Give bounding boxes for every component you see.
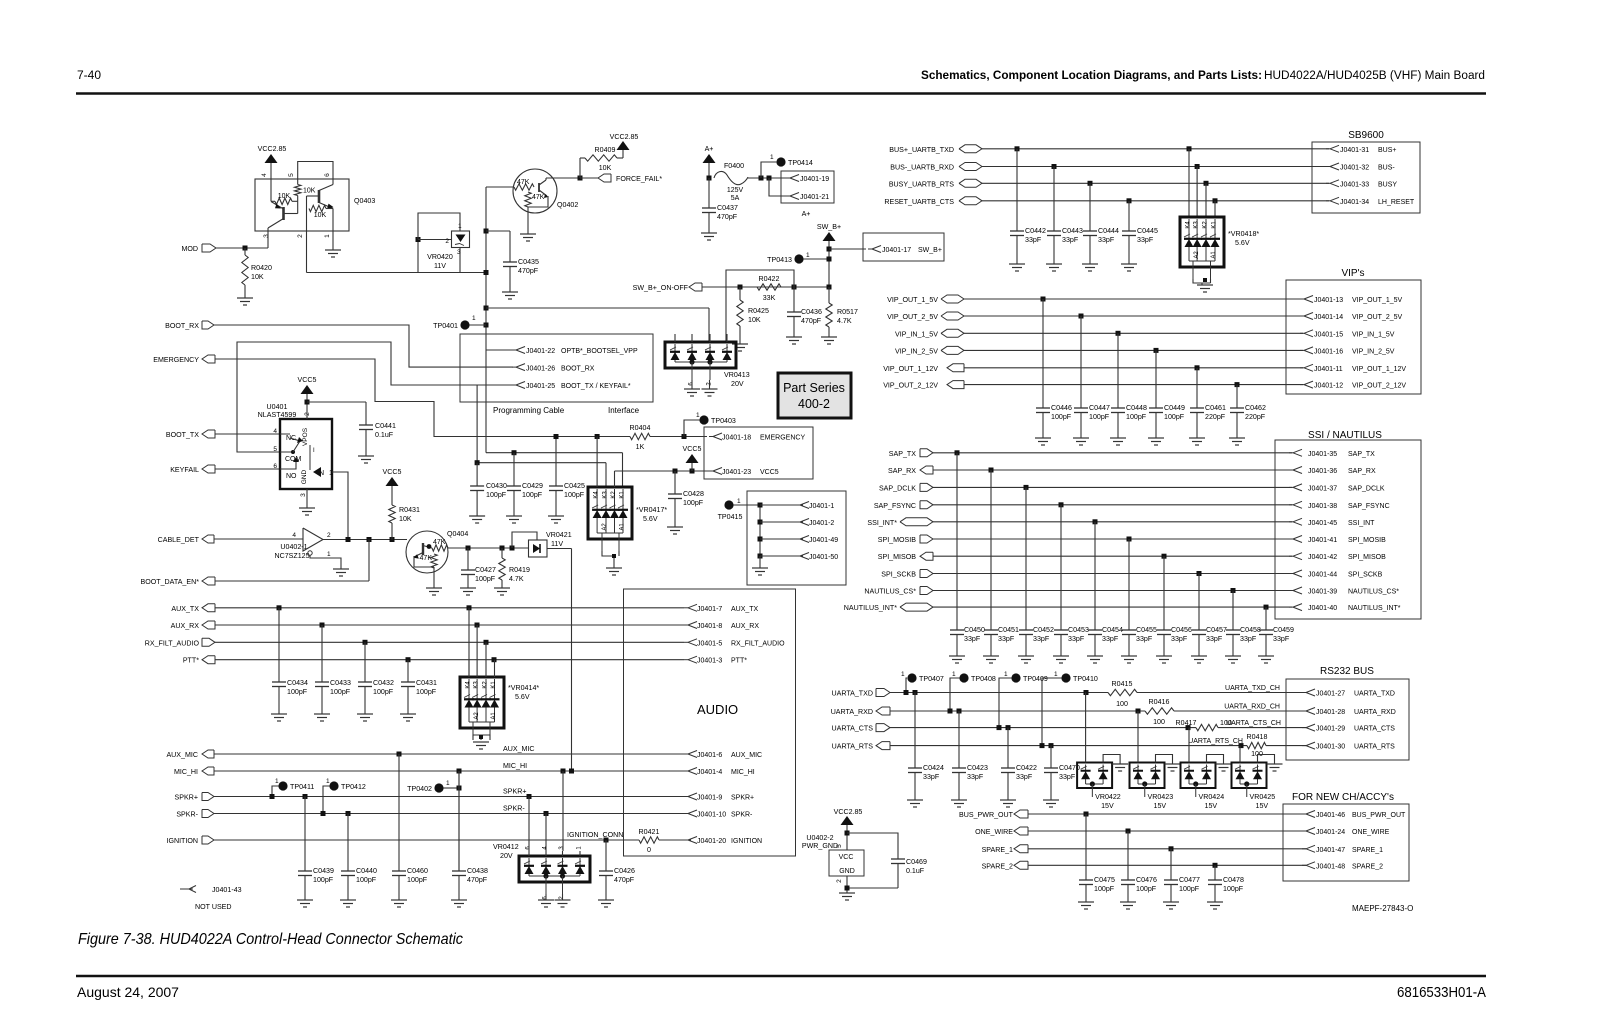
connector box J0401-17 [863,233,944,261]
svg-text:K4: K4 [594,491,600,499]
capacitor C0462 [1230,385,1266,438]
junction R0419 [500,546,505,551]
svg-text:10K: 10K [251,273,264,281]
svg-text:*VR0418*: *VR0418* [1228,230,1259,238]
svg-text:SPKR-: SPKR- [503,805,525,813]
svg-text:UARTA_RXD: UARTA_RXD [831,708,873,716]
svg-text:C0477: C0477 [1179,876,1200,884]
test point TP0403 [699,415,708,424]
svg-text:SAP_FSYNC: SAP_FSYNC [1348,503,1390,510]
test point TP0412 [329,781,338,790]
svg-text:33pF: 33pF [1240,635,1257,643]
capacitor C0436 [787,287,822,337]
ground (C0445) [1121,263,1137,265]
svg-text:47K: 47K [532,194,545,201]
svg-text:FORCE_FAIL*: FORCE_FAIL* [616,175,662,183]
svg-text:VIP's: VIP's [1341,268,1364,279]
ground (C0451) [983,655,999,657]
svg-text:FOR NEW CH/ACCY's: FOR NEW CH/ACCY's [1292,792,1394,803]
ground (VR0413 b) [702,388,718,390]
svg-text:C0450: C0450 [964,626,985,634]
svg-text:R0416: R0416 [1149,698,1170,706]
transistor Q0404 outline [406,531,448,573]
svg-text:BOOT_TX: BOOT_TX [166,431,199,439]
svg-text:47K: 47K [420,555,433,562]
svg-text:AUX_MIC: AUX_MIC [503,745,535,753]
svg-text:HUD4022A/HUD4025B (VHF) Main B: HUD4022A/HUD4025B (VHF) Main Board [1264,70,1485,82]
zener array VR0418 [1180,217,1224,267]
svg-text:UARTA_RXD: UARTA_RXD [1354,709,1396,716]
svg-text:VR0413: VR0413 [724,371,750,379]
AUX_TX input tag [171,604,215,613]
ground (C0437) [701,232,717,234]
wire SAP_RX row [933,469,1292,471]
svg-text:J0401-26: J0401-26 [526,366,555,373]
svg-text:VR0421: VR0421 [546,531,572,539]
svg-text:SPARE_1: SPARE_1 [1352,847,1383,854]
capacitor C0425 [549,437,585,517]
svg-text:VIP_IN_1_5V: VIP_IN_1_5V [1352,331,1395,338]
svg-text:C0460: C0460 [407,867,428,875]
svg-text:33pF: 33pF [1016,773,1033,781]
ground (C0478) [1207,901,1223,903]
svg-text:C0423: C0423 [967,764,988,772]
RESET_UARTB_CTS tag [884,197,982,206]
ground (C0462) [1229,437,1245,439]
test point TP0414 [776,157,785,166]
junction SPARE_2 [1213,863,1218,868]
svg-text:J0401-35: J0401-35 [1308,451,1337,458]
capacitor C0424 [908,693,944,801]
capacitor C0435 [503,258,539,292]
pin J0401-6 AUX_MIC [684,751,762,760]
ground (C0433) [314,713,330,715]
ground (R0425) [732,343,748,345]
svg-text:UARTA_CTS: UARTA_CTS [1354,726,1395,733]
wire buffer enable [310,555,341,569]
svg-text:SW_B+: SW_B+ [817,223,841,231]
svg-text:A1: A1 [1211,251,1217,259]
connector box J0401-1/2/49/50 [747,491,846,585]
pin J0401-9 SPKR+ [684,793,754,802]
pin J0401-42 SPI_MISOB [1289,553,1386,562]
wire MIC_HI row [214,770,684,772]
svg-text:C0429: C0429 [522,482,543,490]
wire SAP_FSYNC row [933,504,1292,506]
UARTA_RTS tag [832,742,890,751]
pin J0401-35 SAP_TX [1289,449,1375,458]
svg-text:NAUTILUS_CS*: NAUTILUS_CS* [864,588,916,596]
wire VIP_OUT_1_12V row [964,367,1303,369]
svg-text:33K: 33K [763,294,776,302]
wire SPKR+ row [214,796,684,798]
wire VCC5 to C0441 [307,401,366,403]
wire J0401-2 [760,521,803,523]
SAP_DCLK tag [879,483,933,492]
ground (C0453) [1053,655,1069,657]
svg-text:33pF: 33pF [1025,236,1042,244]
ground (C0431) [400,713,416,715]
pin J0401-4 MIC_HI [684,768,755,777]
connector box AUDIO [624,589,796,856]
resistor R0415 [1108,680,1137,708]
SPI_SCKB tag [881,570,933,579]
svg-text:C0443: C0443 [1062,227,1083,235]
svg-text:OPTB*_BOOTSEL_VPP: OPTB*_BOOTSEL_VPP [561,348,638,355]
svg-text:SPI_MISOB: SPI_MISOB [1348,554,1386,561]
svg-text:AUX_RX: AUX_RX [171,622,200,630]
svg-text:*VR0414*: *VR0414* [508,684,539,692]
wire VIP_IN_2_5V row [964,349,1303,351]
pin J0401-21 [786,193,829,202]
wire U0401 GND pin [306,489,308,508]
svg-text:6816533H01-A: 6816533H01-A [1397,985,1486,1001]
connector box programming cable [460,334,653,402]
svg-text:UARTA_RXD_CH: UARTA_RXD_CH [1224,704,1280,711]
wire to J0401-17 [829,248,866,250]
svg-text:GND: GND [301,469,308,484]
svg-text:VIP_OUT_2_12V: VIP_OUT_2_12V [883,382,938,390]
junction MOD/R0420 [243,246,248,251]
junction VIP_OUT_1_12V/C0461 [1195,365,1200,370]
resistor R0425 [737,287,769,344]
junction TP0413 [827,257,832,262]
wire VIP_IN_1_5V row [964,332,1303,334]
VIP_OUT_1_5V tag [887,295,964,304]
svg-text:5: 5 [836,844,843,848]
svg-text:BOOT_DATA_EN*: BOOT_DATA_EN* [141,578,200,586]
ground (VR0417) [606,567,622,569]
power VCC5 (J0401-23) [686,454,699,463]
capacitor C0423 [952,711,988,800]
pin J0401-32 BUS- [1326,163,1395,172]
svg-text:J0401-20: J0401-20 [697,838,726,845]
svg-text:100pF: 100pF [1094,885,1115,893]
ground (TP0415 box) [752,567,768,569]
svg-text:100pF: 100pF [1051,413,1072,421]
svg-text:SAP_RX: SAP_RX [1348,468,1376,475]
svg-text:R0404: R0404 [630,424,651,432]
pin J0401-18 EMERGENCY [709,433,805,442]
svg-text:10K: 10K [399,515,412,523]
IC U0402-2 PWR_GND [802,834,864,883]
svg-text:BUS+: BUS+ [1378,147,1396,154]
svg-text:EMERGENCY: EMERGENCY [760,435,805,442]
svg-text:C0428: C0428 [683,490,704,498]
junction VIP_OUT_2_5V/C0447 [1079,314,1084,319]
ground (C0458) [1225,655,1241,657]
buffer U0402-1 NC7SZ125 [303,528,323,551]
junction SPI_SCKB [1197,571,1202,576]
svg-text:VIP_IN_2_5V: VIP_IN_2_5V [895,347,938,355]
wire BUSY_UARTB_RTS row [982,182,1329,184]
svg-text:UARTA_TXD_CH: UARTA_TXD_CH [1225,685,1280,692]
ground (C0446) [1035,437,1051,439]
wire VR0420 pin2 [418,239,452,241]
svg-text:1: 1 [275,778,279,785]
svg-text:1: 1 [952,671,956,678]
wire Q0404 collector out [448,547,529,549]
svg-text:VPOS: VPOS [302,427,309,446]
resistor R0418 [1247,733,1268,758]
svg-text:100pF: 100pF [416,688,437,696]
zener array VR0414 [460,677,504,728]
wire J0401-49 [760,538,803,540]
U0401 labels [258,403,297,419]
wire UARTA_RXD row [890,710,1145,712]
pin J0401-30 UARTA_RTS [1302,742,1395,751]
wire VR0420 pin1 loop [418,213,460,240]
svg-text:15V: 15V [1205,802,1218,810]
svg-text:C0427: C0427 [475,566,496,574]
svg-text:100pF: 100pF [1089,413,1110,421]
svg-text:BUSY_UARTB_RTS: BUSY_UARTB_RTS [889,180,954,188]
svg-text:*VR0417*: *VR0417* [636,506,667,514]
wire Q0403 pin2 down [306,209,308,273]
svg-text:TP0403: TP0403 [711,417,736,425]
connector box SB9600 [1312,142,1420,213]
svg-text:0.1uF: 0.1uF [375,431,394,439]
svg-text:100pF: 100pF [373,688,394,696]
svg-text:AUX_MIC: AUX_MIC [731,752,762,759]
wire SSI_INT* row [933,521,1292,523]
power VCC5 (U0401) [301,385,314,394]
svg-text:SAP_DCLK: SAP_DCLK [1348,485,1385,492]
svg-text:BOOT_TX / KEYFAIL*: BOOT_TX / KEYFAIL* [561,383,631,390]
pin J0401-3 PTT* [684,656,747,665]
resistor R0404 [630,424,651,451]
svg-text:VCC5: VCC5 [383,468,402,476]
svg-text:SB9600: SB9600 [1348,130,1384,141]
wire VPP into box [485,334,487,350]
svg-text:UARTA_CTS_CH: UARTA_CTS_CH [1226,720,1281,727]
svg-text:BUS_PWR_OUT: BUS_PWR_OUT [959,811,1014,819]
svg-text:A2: A2 [474,712,480,720]
ground (R0420) [237,297,253,299]
wire BOOT_RX [214,325,513,367]
capacitor C0434 [272,608,308,714]
svg-text:J0401-49: J0401-49 [809,537,838,544]
svg-text:K2: K2 [1203,221,1209,229]
junction VIP_OUT_2_12V/C0462 [1235,382,1240,387]
svg-text:J0401-17: J0401-17 [882,247,911,254]
capacitor C0478 [1208,865,1244,902]
capacitor C0451 [984,470,1019,656]
svg-text:33pF: 33pF [1068,635,1085,643]
svg-text:BOOT_RX: BOOT_RX [165,322,199,330]
pin J0401-8 AUX_RX [684,622,759,631]
svg-text:100: 100 [1116,700,1128,708]
svg-text:J0401-36: J0401-36 [1308,468,1337,475]
wire VPP vertical [485,187,487,334]
pin J0401-23 VCC5 [709,468,779,477]
svg-text:SPI_MISOB: SPI_MISOB [878,553,917,561]
junction VCC5 arrow [690,469,695,474]
svg-text:J0401-7: J0401-7 [697,606,722,613]
capacitor C0454 [1088,522,1123,656]
junction RESET_UARTB_CTS/C0445 [1127,198,1132,203]
test point TP0407 [907,673,916,682]
junction NAUTILUS_INT* [1264,605,1269,610]
test point TP0402 [434,783,443,792]
capacitor C0438 [452,771,488,900]
svg-text:IGNITION: IGNITION [166,837,198,845]
svg-text:J0401-25: J0401-25 [526,383,555,390]
junction SPI_MISOB [1162,554,1167,559]
svg-text:C0431: C0431 [416,679,437,687]
Q0403 internal resistor 10K (vertical) [295,179,316,201]
junction VR0417 K4 [595,434,600,439]
Q0404 internal transistor [414,543,433,559]
wire VR0413 pin4 loop [726,270,794,342]
ground (C0452) [1018,655,1034,657]
svg-text:6: 6 [324,173,331,177]
svg-text:1: 1 [696,412,700,419]
pin J0401-11 VIP_OUT_1_12V [1300,364,1406,373]
junction FORCE_FAIL/R0409 [578,176,583,181]
ground (C0422) [1000,799,1016,801]
svg-text:33pF: 33pF [1206,635,1223,643]
svg-text:U0402-2: U0402-2 [806,834,833,842]
svg-text:470pF: 470pF [801,317,822,325]
capacitor C0433 [315,625,351,714]
wire SPI_SCKB row [933,573,1292,575]
junction PTT*/494 [492,657,497,662]
wire AUX_TX row [215,607,684,609]
ground (C0459) [1258,655,1274,657]
fuse F0400 [714,162,748,202]
wire U0401 IN pin [332,472,348,539]
capacitor C0455 [1122,539,1157,656]
ground (C0428) [667,526,683,528]
svg-text:SPKR-: SPKR- [731,812,753,819]
svg-text:3: 3 [457,249,461,256]
svg-text:J0401-11: J0401-11 [1314,366,1343,373]
transistor array Q0403 outline [255,179,349,231]
ground (U0402-1) [333,568,349,570]
junction SPI_MOSIB [1127,537,1132,542]
svg-text:J0401-42: J0401-42 [1308,554,1337,561]
junction MIC_HI/VR0421 [569,769,574,774]
Q0404 internal resistor 47K [432,539,448,551]
svg-text:1: 1 [770,154,774,161]
wire UARTA_TXD row [890,692,1108,694]
pin J0401-5 RX_FILT_AUDIO [684,639,785,648]
svg-text:MIC_HI: MIC_HI [731,769,755,776]
svg-text:4: 4 [292,532,296,539]
wire VR0417 bottom [602,551,614,568]
svg-text:SPI_MOSIB: SPI_MOSIB [1348,537,1386,544]
junction MIC_HI/VR0412 [561,769,566,774]
pin J0401-39 NAUTILUS_CS* [1289,587,1399,596]
capacitor C0475 [1079,814,1115,902]
junction C0430 top [475,460,480,465]
svg-text:125V: 125V [727,187,744,194]
svg-text:C0447: C0447 [1089,404,1110,412]
junction ONE_WIRE [1126,829,1131,834]
wire VIP_OUT_2_12V row [964,384,1303,386]
svg-text:33pF: 33pF [1137,236,1154,244]
svg-text:U0401: U0401 [267,403,288,411]
junction SAP_TX [955,450,960,455]
pin J0401-43 NOT USED [180,888,193,890]
junction SAP_RX [989,468,994,473]
svg-text:SPI_SCKB: SPI_SCKB [881,571,916,579]
pin J0401-16 VIP_IN_2_5V [1300,347,1395,356]
Q0403 internal resistor 10K (lower) [309,205,333,219]
junction AUX_TX/279 [277,605,282,610]
svg-text:Interface: Interface [608,406,640,415]
junction VPP/C0435 [484,229,489,234]
wire R0421 out [659,839,691,841]
wire VR0417 K4 up [596,437,598,488]
svg-text:15V: 15V [1256,802,1269,810]
svg-text:J0401-45: J0401-45 [1308,520,1337,527]
svg-text:C0458: C0458 [1240,626,1261,634]
pin J0401-12 VIP_OUT_2_12V [1300,381,1406,390]
wire BOOTTX col [476,385,478,463]
Q0402 internal transistor [539,178,548,198]
ground (C0435) [502,291,518,293]
ground (C0439) [297,899,313,901]
capacitor C0477 [1164,849,1200,902]
svg-text:10K: 10K [303,188,316,195]
svg-text:5.6V: 5.6V [515,693,530,701]
capacitor C0461 [1190,368,1226,438]
ground (C0443) [1046,263,1062,265]
capacitor C0441 [359,422,396,456]
svg-text:BUS_PWR_OUT: BUS_PWR_OUT [1352,812,1406,819]
svg-text:C0469: C0469 [906,858,927,866]
svg-text:1: 1 [329,470,333,477]
svg-text:33pF: 33pF [998,635,1015,643]
pin J0401-15 VIP_IN_1_5V [1300,330,1395,339]
svg-text:1K: 1K [636,443,645,451]
junction U0402-2 gnd [845,886,850,891]
svg-text:C0451: C0451 [998,626,1019,634]
junction VPP/272 [484,270,489,275]
svg-text:100pF: 100pF [683,499,704,507]
BUS+_UARTB_TXD tag [889,145,982,154]
svg-text:C0461: C0461 [1205,404,1226,412]
wire C0469 link [847,833,898,859]
wire CABLE_DET [214,538,303,540]
pin J0401-33 BUSY [1326,180,1397,189]
svg-text:J0401-47: J0401-47 [1316,847,1345,854]
pin J0401-31 BUS+ [1326,145,1396,154]
ground (C0449) [1148,437,1164,439]
pin J0401-19 [786,175,829,184]
svg-text:TP0414: TP0414 [788,159,813,167]
Q0404 emitter loop [414,556,434,588]
svg-text:AUX_RX: AUX_RX [731,623,759,630]
svg-text:Schematics, Component Location: Schematics, Component Location Diagrams,… [921,70,1262,82]
svg-text:K3: K3 [1194,221,1200,229]
connector box VIP's [1286,280,1421,394]
svg-text:C0476: C0476 [1136,876,1157,884]
ground (C0444) [1082,263,1098,265]
svg-text:BUS-_UARTB_RXD: BUS-_UARTB_RXD [890,164,954,172]
VIP_OUT_1_12V tag [883,364,964,373]
wire C0438 col [458,771,460,871]
capacitor C0470 [1044,746,1080,800]
wire Q0402 base [486,186,514,188]
pin J0401-40 NAUTILUS_INT* [1289,604,1401,613]
pin J0401-45 SSI_INT [1289,518,1375,527]
wire Q0402 collector out [546,177,580,179]
junction VR0418 gnd [1203,278,1207,282]
ground (VR0414) [473,741,489,743]
